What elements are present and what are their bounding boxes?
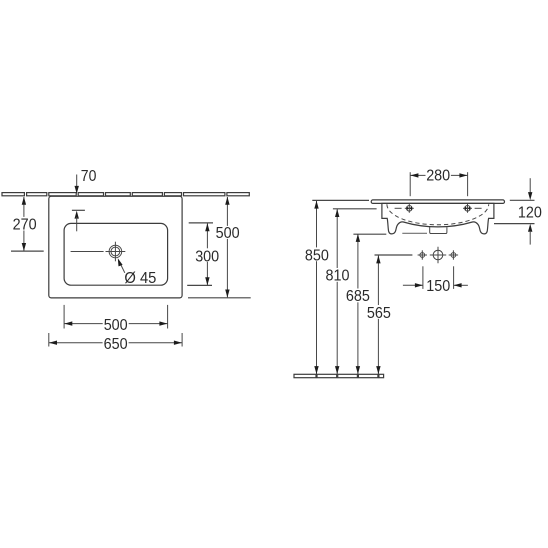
svg-text:500: 500 bbox=[216, 225, 240, 242]
svg-text:70: 70 bbox=[81, 168, 97, 185]
svg-text:685: 685 bbox=[346, 288, 370, 305]
dimension 270 bbox=[23, 197, 25, 251]
dimension 685 bbox=[353, 233, 386, 235]
svg-text:650: 650 bbox=[104, 336, 128, 353]
svg-text:280: 280 bbox=[426, 168, 450, 185]
svg-text:850: 850 bbox=[305, 248, 329, 265]
svg-text:300: 300 bbox=[195, 248, 219, 265]
dimension 850 bbox=[312, 199, 369, 201]
countertop slab (elevation) bbox=[371, 200, 504, 204]
svg-text:500: 500 bbox=[104, 317, 128, 334]
svg-text:150: 150 bbox=[426, 278, 450, 295]
dimension 650 bbox=[48, 333, 50, 347]
inner basin plan view bbox=[64, 223, 168, 285]
dimension 70 bbox=[76, 175, 78, 188]
dimension 300 bbox=[189, 222, 213, 224]
wall mounting hole big bbox=[433, 250, 443, 260]
dimension 810 bbox=[333, 208, 377, 210]
wall tile strip (plan view) bbox=[2, 193, 249, 196]
dimension 500 bottom (plan) bbox=[63, 305, 65, 329]
drain crosshair bbox=[106, 251, 126, 253]
washbasin outline plan view bbox=[49, 196, 182, 298]
basin body elevation outline bbox=[382, 203, 494, 234]
leader arrow Ø45 bbox=[120, 263, 125, 273]
svg-text:565: 565 bbox=[367, 305, 391, 322]
tap hole marker right bbox=[475, 207, 482, 209]
tap hole marker left bbox=[395, 207, 402, 209]
drain centerline bbox=[71, 251, 104, 253]
drain trap box elevation bbox=[430, 227, 447, 234]
dimension 120 bbox=[529, 178, 531, 193]
hidden bowl dashed arc bbox=[387, 204, 489, 225]
svg-text:120: 120 bbox=[518, 205, 542, 222]
dimension 150 bbox=[422, 266, 424, 289]
svg-text:270: 270 bbox=[13, 217, 37, 234]
wall mounting hole right bbox=[451, 253, 456, 258]
dimension 500 right (plan) bbox=[226, 197, 228, 297]
wall mounting hole left bbox=[420, 253, 425, 258]
svg-text:810: 810 bbox=[326, 267, 350, 284]
floor strip bbox=[294, 374, 384, 377]
dimension 280 bbox=[409, 172, 411, 196]
dimension 565 bbox=[375, 254, 413, 256]
drain hole circles bbox=[109, 245, 122, 258]
svg-text:Ø 45: Ø 45 bbox=[124, 270, 156, 287]
